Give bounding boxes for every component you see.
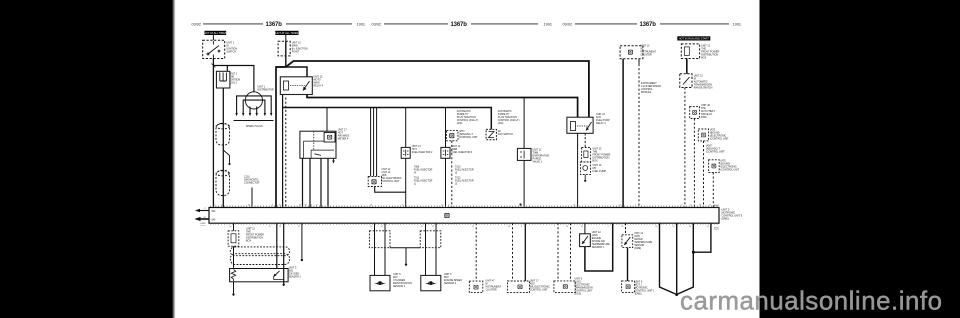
svg-text:50: 50 [689,226,691,228]
svg-text:FUEL INJECTOR: FUEL INJECTOR [455,180,474,183]
svg-text:12: 12 [472,226,474,228]
svg-text:CONTROL UNIT: CONTROL UNIT [382,180,400,183]
svg-text:COIL 2: COIL 2 [230,82,238,85]
svg-text:FUEL INJECTOR: FUEL INJECTOR [414,180,433,183]
svg-text:86: 86 [699,205,701,207]
svg-text:26: 26 [279,226,281,228]
svg-text:carmanualsonline.info: carmanualsonline.info [680,287,943,315]
svg-text:86: 86 [204,217,206,219]
svg-text:28: 28 [278,205,280,207]
svg-text:26: 26 [508,226,510,228]
svg-text:FUEL INJECTOR 6: FUEL INJECTOR 6 [452,151,473,154]
svg-text:17: 17 [448,205,450,207]
svg-text:1991: 1991 [544,22,552,26]
svg-text:1991: 1991 [357,22,365,26]
svg-text:17: 17 [316,205,318,207]
svg-text:12: 12 [298,226,300,228]
svg-text:FUEL INJECTOR: FUEL INJECTOR [455,169,474,172]
svg-text:HOT IN RUN AND START: HOT IN RUN AND START [679,37,710,41]
svg-text:(DME): (DME) [635,293,642,296]
svg-text:FUEL PUMP: FUEL PUMP [593,170,607,173]
svg-text:DWA: DWA [701,116,707,119]
svg-text:(EGS): (EGS) [575,293,582,296]
svg-text:7: 7 [608,226,609,228]
svg-text:VALVE 1: VALVE 1 [533,161,543,164]
svg-text:(ASC: (ASC [457,122,463,125]
svg-text:28: 28 [655,226,657,228]
svg-text:8: 8 [272,205,273,207]
svg-text:86: 86 [248,205,250,207]
svg-text:12: 12 [709,205,711,207]
svg-text:50: 50 [381,226,383,228]
svg-text:(CONTROL UNIT: (CONTROL UNIT [721,169,740,172]
svg-text:55: 55 [401,205,403,207]
svg-text:31: 31 [299,205,301,207]
svg-text:1367b: 1367b [451,22,468,28]
svg-text:55: 55 [619,205,621,207]
svg-text:86: 86 [305,205,307,207]
svg-text:(CONTROL UNIT: (CONTROL UNIT [706,151,725,154]
svg-text:12: 12 [221,205,223,207]
svg-text:METER 4: METER 4 [338,138,349,141]
svg-text:12: 12 [432,226,434,228]
svg-text:SENSOR 2: SENSOR 2 [289,276,302,279]
svg-text:(DME): (DME) [634,247,641,250]
svg-text:26: 26 [621,226,623,228]
svg-text:09/92: 09/92 [563,22,573,26]
svg-text:55: 55 [672,226,674,228]
svg-text:BOX: BOX [246,240,251,243]
svg-text:12: 12 [370,226,372,228]
svg-text:HOT AT ALL TIMES: HOT AT ALL TIMES [204,31,227,35]
svg-text:RELAY 4: RELAY 4 [314,85,324,88]
svg-text:BOX: BOX [701,57,706,60]
svg-text:31: 31 [690,205,692,207]
svg-text:7: 7 [635,205,636,207]
svg-text:1991: 1991 [733,22,741,26]
svg-text:(DME): (DME) [722,218,729,221]
svg-text:28: 28 [370,205,372,207]
svg-text:FUEL INJECTOR: FUEL INJECTOR [414,169,433,172]
svg-text:DISTRIBUTOR: DISTRIBUTOR [258,89,274,92]
svg-text:31: 31 [421,226,423,228]
svg-text:12: 12 [441,205,443,207]
svg-text:CLUSTER: CLUSTER [641,54,652,57]
svg-text:HOT AT ALL TIMES: HOT AT ALL TIMES [276,31,299,35]
svg-text:31: 31 [707,226,709,228]
svg-text:7: 7 [554,226,555,228]
svg-text:(CONTROL UNIT: (CONTROL UNIT [710,138,729,141]
svg-text:CLUSTER: CLUSTER [486,289,497,292]
svg-text:SENSOR 4: SENSOR 4 [444,282,457,285]
svg-text:FUEL INJECTOR 2: FUEL INJECTOR 2 [412,151,433,154]
svg-text:SENSOR 1: SENSOR 1 [592,246,605,249]
svg-text:RELAY 4: RELAY 4 [596,122,606,125]
svg-text:17: 17 [269,226,271,228]
svg-text:X600: X600 [200,223,206,225]
svg-text:X600: X600 [714,205,720,207]
svg-text:50: 50 [229,226,231,228]
svg-text:12: 12 [681,205,683,207]
svg-text:MODULE: MODULE [641,91,652,94]
svg-text:(ASC: (ASC [498,122,504,125]
svg-text:03/92: 03/92 [372,22,382,26]
svg-text:86: 86 [310,205,312,207]
svg-text:8: 8 [521,226,522,228]
svg-text:RANGE SWITCH: RANGE SWITCH [694,87,713,90]
svg-text:4: 4 [282,205,283,207]
svg-text:(CONTROL UNIT: (CONTROL UNIT [459,136,478,139]
svg-text:17: 17 [204,208,206,210]
svg-text:1367b: 1367b [266,22,283,28]
svg-text:19: 19 [581,226,583,228]
svg-text:55: 55 [573,205,575,207]
svg-text:50: 50 [213,205,215,207]
svg-text:86: 86 [566,226,568,228]
svg-text:ASC SWITCH: ASC SWITCH [498,133,513,136]
svg-text:SWITCH: SWITCH [227,51,237,54]
svg-text:SENSOR 3: SENSOR 3 [393,285,406,288]
svg-text:BOX: BOX [593,160,598,163]
svg-text:CONTROL UNIT: CONTROL UNIT [530,289,548,292]
svg-text:50: 50 [520,205,522,207]
svg-text:CONNECTOR: CONNECTOR [244,182,260,185]
svg-text:X600: X600 [714,227,720,229]
svg-text:POINT: POINT [292,51,300,54]
svg-text:1367b: 1367b [640,22,657,28]
svg-text:03/92: 03/92 [192,22,202,26]
svg-text:SPARK PLUGS: SPARK PLUGS [246,125,263,128]
